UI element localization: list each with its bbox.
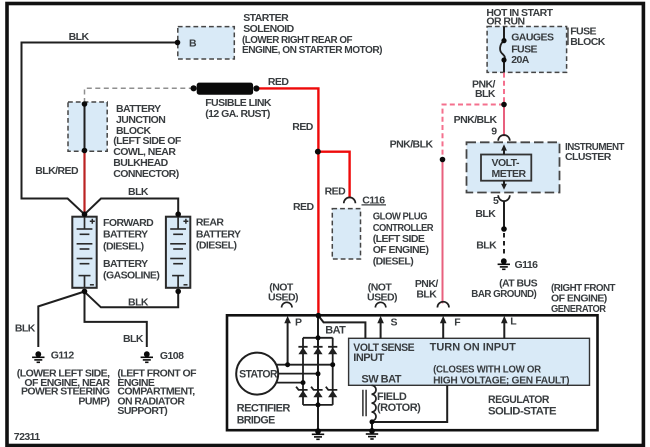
- svg-text:BAR GROUND): BAR GROUND): [471, 288, 536, 300]
- svg-text:CONTROLLER: CONTROLLER: [373, 222, 434, 234]
- svg-text:BLK: BLK: [475, 208, 496, 220]
- svg-text:ENGINE, ON STARTER MOTOR): ENGINE, ON STARTER MOTOR): [242, 44, 382, 56]
- svg-text:FORWARD: FORWARD: [103, 217, 154, 229]
- svg-text:USED): USED): [268, 291, 298, 303]
- svg-text:BLK: BLK: [416, 288, 437, 300]
- svg-text:CONNECTOR): CONNECTOR): [113, 168, 179, 180]
- svg-text:(12 GA. RUST): (12 GA. RUST): [205, 108, 270, 120]
- svg-text:GAUGES: GAUGES: [511, 32, 554, 44]
- svg-text:BRIDGE: BRIDGE: [237, 415, 275, 427]
- svg-text:REAR: REAR: [196, 217, 225, 229]
- svg-text:BATTERY: BATTERY: [103, 229, 148, 241]
- svg-text:STATOR: STATOR: [239, 368, 278, 380]
- svg-text:SUPPORT): SUPPORT): [117, 405, 167, 417]
- svg-text:BLK: BLK: [475, 88, 496, 100]
- svg-text:(GASOLINE): (GASOLINE): [103, 270, 159, 282]
- svg-text:INPUT: INPUT: [353, 352, 384, 364]
- svg-text:CLUSTER: CLUSTER: [565, 151, 612, 163]
- svg-text:SOLID-STATE: SOLID-STATE: [488, 406, 556, 418]
- svg-text:BATTERY: BATTERY: [196, 228, 241, 240]
- svg-text:BLOCK: BLOCK: [570, 36, 606, 48]
- svg-text:G112: G112: [51, 349, 75, 361]
- svg-text:BLK/RED: BLK/RED: [35, 165, 79, 177]
- svg-text:GLOW PLUG: GLOW PLUG: [373, 211, 428, 223]
- svg-text:(DIESEL): (DIESEL): [196, 240, 237, 252]
- svg-text:G116: G116: [515, 259, 539, 271]
- svg-text:(ROTOR): (ROTOR): [377, 402, 421, 414]
- svg-text:20A: 20A: [511, 54, 530, 66]
- svg-text:OR RUN: OR RUN: [486, 16, 524, 28]
- svg-text:9: 9: [491, 126, 497, 138]
- svg-text:BATTERY: BATTERY: [116, 103, 161, 115]
- svg-text:TURN ON INPUT: TURN ON INPUT: [430, 341, 516, 353]
- svg-text:BLK: BLK: [128, 186, 149, 198]
- svg-text:S: S: [391, 317, 398, 329]
- svg-text:BLK: BLK: [69, 31, 90, 43]
- svg-text:BLK: BLK: [128, 297, 149, 309]
- svg-text:SW BAT: SW BAT: [361, 373, 401, 385]
- svg-text:BAT: BAT: [325, 325, 346, 337]
- svg-text:(DIESEL): (DIESEL): [373, 255, 414, 267]
- svg-text:METER: METER: [492, 168, 527, 180]
- svg-text:BATTERY: BATTERY: [103, 258, 148, 270]
- svg-text:(DIESEL): (DIESEL): [103, 240, 144, 252]
- svg-text:BLK: BLK: [123, 333, 144, 345]
- svg-text:RED: RED: [293, 201, 314, 213]
- svg-text:5: 5: [493, 195, 499, 207]
- svg-text:OF ENGINE): OF ENGINE): [373, 244, 429, 256]
- svg-text:PUMP): PUMP): [78, 396, 109, 408]
- svg-text:RED: RED: [325, 186, 346, 198]
- svg-text:GENERATOR: GENERATOR: [551, 303, 606, 315]
- svg-text:72311: 72311: [14, 431, 41, 443]
- svg-text:RED: RED: [268, 76, 289, 88]
- svg-text:PNK/BLK: PNK/BLK: [390, 139, 434, 151]
- svg-text:USED): USED): [367, 291, 397, 303]
- svg-text:G108: G108: [160, 350, 184, 362]
- svg-text:B: B: [189, 37, 197, 49]
- svg-text:C116: C116: [362, 194, 385, 206]
- svg-text:P: P: [295, 317, 302, 329]
- svg-text:(LEFT SIDE OF: (LEFT SIDE OF: [113, 135, 182, 147]
- svg-text:PNK/BLK: PNK/BLK: [454, 114, 498, 126]
- svg-text:BLK: BLK: [15, 323, 36, 335]
- svg-text:REGULATOR: REGULATOR: [488, 394, 550, 406]
- svg-text:HIGH VOLTAGE; GEN FAULT): HIGH VOLTAGE; GEN FAULT): [433, 375, 569, 387]
- svg-text:BLK: BLK: [476, 239, 497, 251]
- svg-text:RED: RED: [292, 121, 313, 133]
- svg-text:RECTIFIER: RECTIFIER: [237, 403, 291, 415]
